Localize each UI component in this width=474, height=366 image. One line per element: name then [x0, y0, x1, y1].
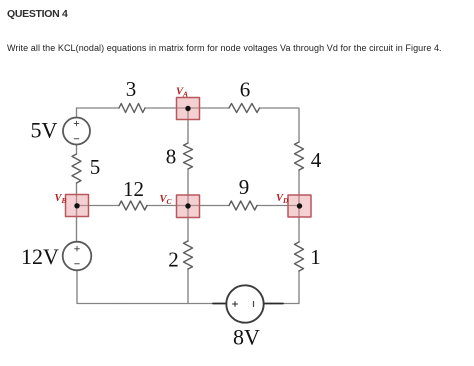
svg-text:4: 4 — [311, 148, 322, 172]
12V minus mark — [75, 263, 80, 265]
8V source left lead — [213, 303, 226, 305]
problem statement text — [7, 43, 442, 53]
svg-text:12V: 12V — [21, 244, 59, 269]
label 6 — [240, 78, 251, 102]
8V source right lead — [264, 303, 283, 305]
label 5 — [90, 155, 101, 179]
junction dot node Vd — [297, 203, 302, 208]
wire right rail resistor 1 to bottom-right corner — [298, 271, 300, 304]
svg-text:8V: 8V — [233, 325, 260, 350]
header QUESTION 4 — [7, 8, 68, 20]
voltage source 5V circle — [63, 118, 90, 145]
resistor 6 — [229, 104, 260, 113]
wire middle rail resistor 8 to node Vc — [187, 169, 189, 241]
svg-text:6: 6 — [240, 78, 251, 102]
node label Vc — [160, 194, 173, 206]
label 1 — [310, 245, 321, 269]
junction dot node Va — [185, 106, 190, 111]
node label Va — [176, 87, 188, 99]
label 4 — [311, 148, 322, 172]
svg-text:1: 1 — [310, 245, 321, 269]
voltage source 12V circle — [63, 242, 92, 271]
resistor 3 — [119, 104, 145, 113]
resistor 12 — [119, 201, 147, 210]
node Vd square — [288, 195, 311, 217]
svg-text:5V: 5V — [31, 118, 58, 143]
node label Vd — [276, 193, 289, 205]
8V minus mark — [253, 302, 255, 307]
resistor 1 — [295, 242, 304, 271]
label 2 — [168, 248, 179, 272]
wire top between resistor 3 and resistor 6 through node Va — [145, 107, 229, 109]
svg-text:VB: VB — [55, 193, 67, 205]
svg-text:VC: VC — [160, 194, 173, 206]
label 8V — [233, 325, 260, 350]
label 12V — [21, 244, 59, 269]
node Vc square — [177, 195, 200, 218]
svg-text:2: 2 — [168, 248, 179, 272]
node Va square — [177, 98, 200, 120]
label 3 — [126, 77, 137, 101]
svg-text:5: 5 — [90, 155, 101, 179]
wire middle rail node Va to resistor 8 — [187, 109, 189, 144]
8V plus mark — [233, 302, 238, 307]
wire left rail resistor 5 to node Vb to 12V source — [76, 183, 78, 242]
resistor 9 — [229, 201, 257, 210]
5V minus mark — [74, 138, 79, 140]
wire top-left corner from 5V source to resistor 3 — [77, 108, 120, 118]
resistor 2 — [184, 241, 193, 269]
12V plus mark — [75, 246, 80, 251]
5V plus mark — [74, 121, 79, 126]
label 5V — [31, 118, 58, 143]
wire middle rail resistor 2 to bottom rail — [187, 269, 189, 304]
wire right rail resistor 4 to node Vd to resistor 1 — [298, 170, 300, 242]
svg-text:3: 3 — [126, 77, 137, 101]
label 8 — [166, 145, 177, 169]
svg-text:9: 9 — [239, 175, 250, 199]
resistor 4 — [295, 142, 304, 170]
label 9 — [239, 175, 250, 199]
wire middle row resistor 9 to node Vd — [257, 205, 300, 207]
label 12 — [123, 177, 144, 201]
resistor 5 — [72, 154, 81, 183]
node label Vb — [55, 193, 67, 205]
wire left rail 12V source to bottom-left corner — [77, 270, 120, 304]
svg-text:12: 12 — [123, 177, 144, 201]
wire left rail 5V source to resistor 5 — [76, 145, 78, 155]
svg-text:VD: VD — [276, 193, 289, 205]
wire middle row resistor 12 to node Vc to resistor 9 — [147, 205, 229, 207]
svg-text:VA: VA — [176, 87, 188, 99]
node Vb square — [66, 195, 89, 217]
wire bottom rail right of 8V source — [283, 303, 299, 305]
wire bottom rail left of 8V source — [120, 303, 214, 305]
wire middle row node Vb to resistor 12 — [77, 205, 119, 207]
svg-text:8: 8 — [166, 145, 177, 169]
junction dot node Vb — [74, 203, 79, 208]
voltage source 8V circle — [226, 285, 263, 322]
junction dot node Vc — [185, 203, 190, 208]
wire top-right corner from resistor 6 down to resistor 4 — [260, 108, 300, 142]
resistor 8 — [184, 143, 193, 169]
